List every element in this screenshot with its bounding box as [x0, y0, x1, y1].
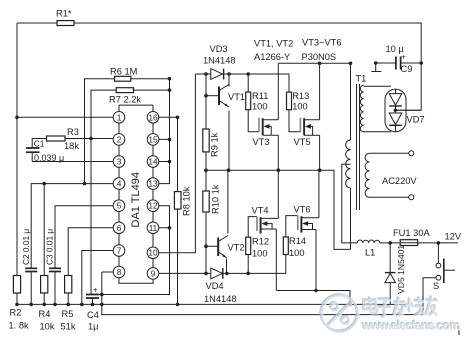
svg-text:4: 4: [117, 179, 122, 189]
svg-text:R2: R2: [10, 308, 22, 318]
svg-text:12V: 12V: [445, 232, 462, 242]
svg-text:VD5 1N5401: VD5 1N5401: [396, 245, 406, 294]
svg-text:15: 15: [148, 134, 158, 144]
svg-text:51k: 51k: [61, 322, 76, 332]
svg-text:R11: R11: [252, 91, 268, 101]
svg-text:VT4: VT4: [252, 206, 269, 216]
svg-text:T1: T1: [356, 74, 367, 84]
svg-text:100: 100: [252, 249, 268, 259]
svg-text:VT1: VT1: [228, 92, 245, 102]
svg-text:VD4: VD4: [206, 281, 224, 291]
svg-text:10k: 10k: [40, 322, 55, 332]
svg-text:10: 10: [148, 248, 158, 258]
svg-text:1. 8k: 1. 8k: [9, 321, 30, 331]
svg-text:1N4148: 1N4148: [203, 56, 236, 66]
svg-text:9: 9: [151, 268, 156, 278]
svg-text:C2 0.01 μ: C2 0.01 μ: [21, 229, 31, 265]
svg-text:1: 1: [117, 112, 122, 122]
svg-text:100: 100: [252, 102, 268, 112]
svg-text:13: 13: [148, 179, 158, 189]
svg-text:R1*: R1*: [56, 9, 72, 19]
svg-text:R5: R5: [62, 309, 74, 319]
svg-text:R8 10k: R8 10k: [182, 186, 192, 216]
svg-text:R12: R12: [252, 237, 269, 247]
svg-text:DA1 TL494: DA1 TL494: [130, 172, 142, 227]
svg-text:3: 3: [117, 157, 122, 167]
svg-text:R13: R13: [292, 91, 309, 101]
svg-text:P30N0S: P30N0S: [302, 52, 337, 62]
svg-text:L1: L1: [365, 248, 375, 258]
svg-text:R10 1k: R10 1k: [211, 184, 221, 214]
svg-text:5: 5: [117, 201, 122, 211]
svg-text:VT1, VT2: VT1, VT2: [254, 39, 293, 49]
svg-text:VT2: VT2: [228, 243, 245, 253]
svg-text:11: 11: [149, 223, 158, 233]
svg-text:VT6: VT6: [294, 205, 311, 215]
svg-text:2: 2: [117, 134, 122, 144]
svg-text:C1: C1: [34, 139, 45, 149]
svg-text:C9: C9: [401, 64, 413, 74]
svg-text:18k: 18k: [64, 141, 79, 151]
svg-text:R7 2.2k: R7 2.2k: [109, 95, 141, 105]
svg-text:6: 6: [117, 223, 122, 233]
svg-text:14: 14: [148, 157, 158, 167]
svg-text:8: 8: [117, 267, 122, 277]
svg-text:7: 7: [117, 246, 122, 256]
svg-text:100: 100: [289, 248, 305, 258]
svg-text:100: 100: [292, 102, 308, 112]
svg-text:www.elecfans.com: www.elecfans.com: [361, 319, 460, 333]
svg-text:R6 1M: R6 1M: [110, 67, 137, 77]
svg-text:12: 12: [148, 201, 158, 211]
svg-text:VD7: VD7: [407, 115, 425, 125]
svg-text:VT5: VT5: [294, 137, 311, 147]
svg-text:FU1 30A: FU1 30A: [393, 228, 430, 238]
svg-text:S: S: [433, 281, 439, 291]
svg-text:0.039 μ: 0.039 μ: [34, 153, 64, 163]
svg-text:VD3: VD3: [210, 44, 228, 54]
svg-text:VT3~VT6: VT3~VT6: [302, 38, 342, 48]
svg-text:R9 1k: R9 1k: [210, 132, 220, 157]
svg-text:+: +: [401, 52, 406, 62]
svg-text:R3: R3: [67, 127, 79, 137]
svg-text:C4: C4: [87, 310, 99, 320]
svg-text:1N4148: 1N4148: [204, 294, 237, 304]
svg-text:1μ: 1μ: [88, 321, 99, 331]
svg-text:VT3: VT3: [253, 137, 270, 147]
svg-text:R14: R14: [289, 236, 306, 246]
svg-text:16: 16: [148, 112, 158, 122]
svg-text:AC220V: AC220V: [382, 176, 417, 186]
svg-text:R4: R4: [39, 309, 51, 319]
svg-text:+: +: [93, 285, 98, 295]
svg-text:C3 0.01 μ: C3 0.01 μ: [45, 229, 55, 265]
svg-text:A1266-Y: A1266-Y: [254, 52, 290, 62]
